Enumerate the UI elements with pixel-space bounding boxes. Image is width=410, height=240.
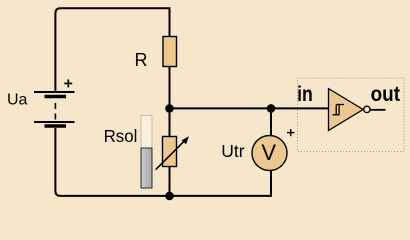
svg-text:V: V [261,140,276,165]
svg-text:R: R [135,50,148,70]
svg-text:out: out [371,83,401,106]
svg-text:Rsol: Rsol [104,126,138,147]
svg-text:in: in [297,83,313,107]
svg-text:Ua: Ua [7,92,28,109]
svg-text:Utr: Utr [221,141,245,161]
